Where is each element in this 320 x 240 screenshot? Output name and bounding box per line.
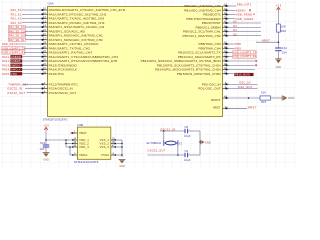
svg-text:USB_USART3_TX: USB_USART3_TX (233, 51, 256, 54)
node PA12_USBDP (2, 59, 22, 63)
node USB_USART1_RX (2, 51, 26, 55)
svg-text:VBAT: VBAT (79, 131, 87, 135)
svg-text:PA7_SD_IN: PA7_SD_IN (9, 39, 24, 42)
svg-text:GND: GND (288, 96, 294, 100)
svg-text:OSC32_OUT: OSC32_OUT (147, 149, 165, 153)
junction (65, 139, 67, 144)
wire (229, 52, 233, 54)
wire (116, 154, 122, 156)
svg-text:USB_USART1_TX: USB_USART1_TX (3, 47, 26, 50)
value 32.768KHz (Y2) (146, 141, 161, 145)
value 104 (C13) (40, 147, 45, 151)
capacitor C9 (185, 153, 188, 158)
svg-text:10pF: 10pF (184, 158, 191, 162)
svg-text:PA13_: PA13_ (2, 63, 11, 67)
svg-text:104: 104 (282, 50, 287, 54)
wire (177, 146, 179, 156)
node USB_SLEEP (236, 17, 254, 21)
wire (271, 97, 283, 99)
svg-text:SWCLK: SWCLK (11, 69, 21, 72)
node USB_USART3_TX (233, 51, 257, 55)
svg-text:VDDA: VDDA (79, 153, 88, 157)
svg-text:GND: GND (205, 140, 211, 144)
wire (22, 13, 42, 15)
wire (121, 140, 123, 157)
wire (26, 30, 42, 32)
wire (46, 139, 72, 141)
svg-text:TAMPER_KEY: TAMPER_KEY (8, 82, 28, 86)
wire (229, 43, 235, 45)
svg-text:OSC_IN: OSC_IN (239, 81, 250, 85)
svg-text:PB15/SPI2_MOSI/TIM1_CH3N: PB15/SPI2_MOSI/TIM1_CH3N (177, 72, 221, 76)
capacitor C12 (275, 48, 281, 51)
node PA15_JTDI (2, 72, 22, 76)
wire (22, 22, 42, 24)
svg-text:STM32F103C8T6: STM32F103C8T6 (74, 160, 99, 164)
wire (277, 32, 279, 48)
wire (229, 14, 236, 16)
wire (229, 47, 235, 49)
ground GND (far right) (275, 59, 281, 69)
wire (26, 39, 42, 41)
ground GND (right arrow) (282, 95, 287, 100)
wire (116, 146, 122, 148)
svg-text:PB8: PB8 (235, 42, 241, 46)
wire (25, 52, 42, 54)
designator C9 (185, 149, 189, 153)
svg-text:32.768KHz: 32.768KHz (146, 141, 161, 145)
svg-text:C13: C13 (40, 141, 46, 145)
svg-text:USB_PEND: USB_PEND (236, 13, 252, 17)
U3A left pin names (49, 8, 126, 95)
wire (22, 9, 42, 11)
node GND label (288, 96, 294, 100)
value 104 (C12) (282, 50, 287, 54)
U3B pin numbers (73, 131, 115, 156)
wire (229, 107, 248, 109)
svg-text:SWDIO: SWDIO (11, 64, 20, 67)
node D5 (233, 33, 237, 36)
node PA2_K2 (11, 17, 22, 21)
node PA13_SWDIO (2, 63, 22, 67)
svg-text:D5: D5 (233, 33, 237, 36)
wire (22, 18, 42, 20)
wire (27, 92, 42, 94)
svg-text:USB_USART3_RX: USB_USART3_RX (233, 56, 257, 59)
svg-text:STM32F103C8T6: STM32F103C8T6 (43, 117, 68, 121)
node PB8 (235, 42, 241, 46)
svg-text:R16: R16 (281, 29, 287, 33)
svg-text:BOOT0: BOOT0 (211, 98, 221, 102)
value 10pF (C9) (184, 158, 191, 162)
svg-text:VSS_3: VSS_3 (99, 145, 109, 149)
wire (277, 11, 279, 25)
svg-text:PA4_SD_CS: PA4_SD_CS (9, 26, 25, 29)
node PB0_INT1 (237, 3, 252, 7)
node PA0_K0 (11, 8, 22, 12)
wire (229, 69, 255, 71)
no-connect X (255, 64, 257, 66)
wire (229, 26, 262, 28)
designator Y2 (179, 142, 183, 145)
wire (26, 35, 42, 37)
wire (229, 56, 233, 58)
wire (160, 130, 185, 132)
wire (70, 147, 72, 155)
no-connect X (255, 60, 257, 62)
wire (229, 31, 262, 33)
wire (45, 147, 47, 153)
ground GND (U3B) (119, 159, 126, 168)
wire (22, 69, 41, 71)
junction (121, 143, 123, 156)
node PA11_USBDM (2, 55, 22, 59)
wire (22, 60, 41, 62)
wire (229, 5, 237, 7)
wire (256, 41, 278, 43)
wire (229, 83, 258, 85)
value 10pF (C8) (184, 134, 191, 138)
IC U3A STM32F103C8T6 (MCU, part A) body (48, 7, 223, 117)
svg-text:D4: D4 (233, 29, 237, 32)
wire (229, 9, 236, 11)
svg-text:C8: C8 (185, 125, 189, 129)
designator R15 (261, 100, 267, 104)
svg-text:PA3_K3: PA3_K3 (11, 21, 22, 25)
U3A left pin numbers (43, 7, 46, 94)
wire (23, 83, 42, 85)
wire (22, 73, 41, 75)
wire (116, 139, 122, 141)
no-connect X (VBAT) (71, 132, 73, 134)
node D2 (233, 21, 237, 24)
wire (45, 131, 47, 146)
junction (248, 97, 250, 99)
svg-text:VDD_3: VDD_3 (79, 145, 89, 149)
designator U3A (48, 2, 54, 6)
svg-text:PA11_: PA11_ (2, 55, 11, 59)
node USB_PEND (236, 13, 252, 17)
svg-text:OSC32_IN: OSC32_IN (7, 87, 22, 91)
svg-text:PC15/OSC32_OUT: PC15/OSC32_OUT (49, 91, 77, 95)
wire (277, 51, 279, 59)
svg-text:NRST: NRST (262, 39, 270, 43)
node PA5_SD_CLK (8, 30, 26, 34)
wire (25, 47, 42, 49)
node PA14_SWCLK (2, 68, 22, 72)
node OSC32_OUT (7, 91, 25, 95)
wire (199, 131, 201, 155)
svg-text:10K: 10K (281, 25, 286, 29)
svg-text:10pF: 10pF (184, 134, 191, 138)
designator U3B (77, 123, 83, 127)
wire (229, 60, 255, 62)
svg-text:PA0_K0: PA0_K0 (11, 8, 22, 12)
value 10K (R15) (261, 90, 266, 94)
U3A right pin stubs (223, 5, 229, 109)
node PA8_KEY0 (2, 42, 17, 46)
junction (69, 146, 71, 148)
svg-text:ADKEY: ADKEY (236, 8, 246, 12)
node NRST (248, 105, 256, 109)
value label STM32F103C8T6 (U3B) (74, 160, 99, 164)
wire (229, 73, 234, 75)
wire (148, 154, 186, 156)
svg-text:R15: R15 (261, 100, 267, 104)
svg-text:PA2_K2: PA2_K2 (11, 17, 22, 21)
U3B pin names (79, 131, 109, 157)
node PA7_SD_IN (8, 38, 25, 42)
no-connect X (253, 14, 254, 15)
wire (26, 26, 42, 28)
node D4 (233, 29, 237, 32)
svg-text:+3.3: +3.3 (276, 3, 282, 7)
junction (45, 139, 47, 141)
wire (22, 56, 41, 58)
designator R14 (281, 29, 287, 33)
node OSC_OUT (238, 85, 253, 89)
svg-text:104: 104 (40, 147, 45, 151)
svg-text:U3B: U3B (77, 123, 83, 127)
svg-text:PA6_SD_OUT: PA6_SD_OUT (9, 35, 27, 38)
svg-text:NRST: NRST (213, 106, 221, 110)
designator C12 (282, 46, 288, 50)
svg-text:PB7/I2C1_SDA/TIM4_CH2: PB7/I2C1_SDA/TIM4_CH2 (183, 34, 221, 38)
value label STM32F103C8T6 (U3A) (43, 117, 68, 121)
wire (25, 88, 42, 90)
node PA1_K1 (11, 12, 22, 16)
U3A left pin stubs (42, 9, 48, 94)
node D3 (233, 25, 237, 28)
ground GND (bottom left) (43, 153, 50, 162)
svg-text:PA5_SD_CLK: PA5_SD_CLK (9, 30, 27, 33)
svg-text:C9: C9 (185, 149, 189, 153)
svg-text:USB_SLEEP: USB_SLEEP (236, 17, 254, 21)
U3A right pin numbers (224, 3, 227, 109)
svg-text:GND: GND (43, 158, 49, 161)
ground GND (crystal, right arrow) (201, 140, 211, 144)
crystal Y2 32.768KHz (164, 140, 178, 145)
no-connect X (249, 9, 251, 11)
svg-text:OSC32_OUT: OSC32_OUT (7, 91, 25, 95)
wire (188, 154, 200, 156)
svg-text:U3A: U3A (48, 2, 54, 6)
U3A right pin names (141, 4, 222, 110)
node PA6_SD_OUT (8, 34, 27, 38)
wire (188, 130, 200, 132)
svg-text:GND: GND (119, 165, 125, 168)
svg-text:JTDI: JTDI (11, 73, 17, 76)
IC U3B STM32F103C8T6 (MCU power pins) body (77, 127, 110, 159)
wire (17, 43, 42, 45)
svg-text:+3.3: +3.3 (43, 123, 49, 127)
wire (229, 64, 255, 66)
wire (116, 143, 122, 145)
svg-text:USBDM: USBDM (11, 56, 21, 59)
svg-text:PA1_K1: PA1_K1 (11, 12, 22, 16)
svg-text:PD1-OSC_OUT: PD1-OSC_OUT (198, 87, 221, 91)
svg-text:PA12_: PA12_ (2, 59, 11, 63)
node USB_USART1_TX (2, 47, 26, 51)
svg-text:USB_USART1_RX: USB_USART1_RX (3, 52, 26, 55)
node PB9 (235, 46, 241, 50)
wire (229, 18, 236, 20)
U3B pin stubs (72, 132, 116, 155)
node ADKEY (236, 8, 246, 12)
designator C13 (40, 141, 46, 145)
node TAMPER_KEY (8, 82, 28, 86)
svg-text:PA8_KEY0: PA8_KEY0 (2, 42, 17, 46)
wire (229, 97, 261, 99)
resistor R14 (277, 24, 281, 32)
svg-text:NRST: NRST (248, 105, 256, 109)
node USB_USART3_RX (233, 55, 257, 59)
resistor R15 (260, 96, 271, 100)
svg-text:PA14_: PA14_ (2, 68, 11, 72)
power +3.3 (top right) (276, 3, 282, 10)
node PB15_MOSI (234, 73, 253, 77)
capacitor C13 (43, 145, 49, 147)
wire (163, 131, 165, 141)
value 10K (R14) (281, 25, 286, 29)
wire (229, 22, 262, 24)
svg-text:D3: D3 (233, 25, 237, 28)
node PA3_K3 (11, 21, 22, 25)
svg-text:PB15_MOSI: PB15_MOSI (235, 74, 250, 77)
power +3.3 (bottom left) (43, 123, 49, 130)
svg-text:C12: C12 (282, 46, 288, 50)
node NRST (pullup) (262, 39, 270, 43)
node OSC32_IN (7, 87, 22, 91)
capacitor C8 (185, 129, 188, 134)
wire (66, 140, 72, 147)
node PA4_SD_CS (8, 25, 25, 29)
wire (22, 64, 41, 66)
node OSC32_IN (crystal) (160, 127, 175, 131)
svg-text:PA15_: PA15_ (2, 72, 11, 76)
svg-text:USBDP: USBDP (11, 60, 21, 63)
wire (229, 88, 258, 90)
svg-text:PB0_INT1: PB0_INT1 (237, 3, 252, 7)
svg-text:VSSA: VSSA (101, 153, 109, 157)
svg-text:PA15/JTDI: PA15/JTDI (49, 72, 64, 76)
node OSC32_OUT (crystal) (147, 149, 165, 153)
junction (278, 41, 280, 43)
svg-text:10K: 10K (261, 90, 266, 94)
node OSC_IN (239, 81, 250, 85)
svg-text:OSC_OUT: OSC_OUT (238, 85, 253, 89)
svg-text:D2: D2 (233, 21, 237, 24)
svg-text:GND: GND (276, 66, 282, 69)
designator C8 (185, 125, 189, 129)
svg-text:PB9: PB9 (235, 46, 241, 50)
junction (163, 130, 201, 156)
wire (229, 35, 262, 37)
